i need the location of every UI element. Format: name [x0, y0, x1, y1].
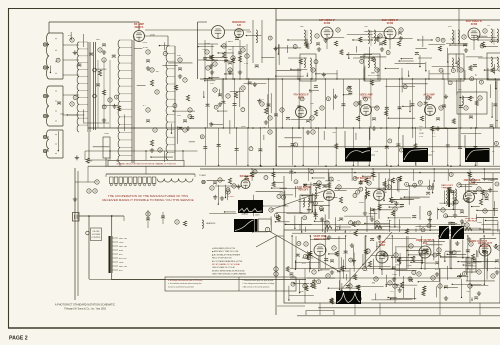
svg-text:6BQ7A: 6BQ7A — [135, 25, 144, 29]
svg-text:LINE VOLTAGE OF 117 V AC: LINE VOLTAGE OF 117 V AC — [212, 266, 236, 269]
svg-text:ON-OFF: ON-OFF — [92, 231, 100, 233]
svg-text:6J6: 6J6 — [237, 24, 242, 27]
svg-text:CHANNEL SELECTOR SWITCH SHOWN: CHANNEL SELECTOR SWITCH SHOWN IN CHANNEL… — [116, 163, 176, 166]
svg-text:HORIZ OUTPUT: HORIZ OUTPUT — [469, 240, 487, 243]
svg-text:56K: 56K — [96, 39, 100, 41]
svg-text:SET AT CHANNEL 13 / NO SIGNAL: SET AT CHANNEL 13 / NO SIGNAL — [212, 263, 240, 266]
svg-text:BLU: BLU — [119, 254, 123, 256]
svg-text:GRN: GRN — [119, 242, 124, 244]
svg-text:CONTROL: CONTROL — [465, 221, 477, 223]
svg-text:56K: 56K — [300, 291, 304, 293]
svg-text:MODELS WHEN DETAILS A PRODUCE: MODELS WHEN DETAILS A PRODUCED — [212, 269, 246, 272]
svg-text:470K: 470K — [143, 47, 149, 49]
svg-text:RECEIVER MAKES IT POSSIBLE TO: RECEIVER MAKES IT POSSIBLE TO BRING YOU … — [102, 198, 193, 202]
svg-text:47K: 47K — [68, 35, 72, 37]
svg-text:1500: 1500 — [104, 133, 110, 135]
svg-text:470K: 470K — [150, 35, 155, 37]
svg-text:120K: 120K — [450, 39, 455, 41]
svg-text:RED-YEL: RED-YEL — [119, 246, 127, 248]
svg-text:47K: 47K — [435, 269, 439, 271]
svg-text:100K: 100K — [419, 133, 424, 135]
svg-text:10K: 10K — [89, 161, 93, 163]
svg-text:RED-YEL: RED-YEL — [119, 238, 127, 240]
svg-text:PAGE 2: PAGE 2 — [9, 336, 28, 342]
svg-text:HEATERS: HEATERS — [206, 222, 216, 225]
svg-text:©Howard W. Sams & Co., Inc. Y: ©Howard W. Sams & Co., Inc. Year 1953 — [64, 308, 107, 311]
svg-text:470K: 470K — [142, 42, 147, 44]
svg-text:VOLUME: VOLUME — [92, 234, 101, 236]
svg-text:FIELD OF DEFLECTION: FIELD OF DEFLECTION — [212, 258, 232, 260]
svg-text:7.5V: 7.5V — [374, 151, 379, 153]
svg-text:47K: 47K — [361, 224, 365, 226]
svg-text:ALL VOLTAGES MEASURED w/VTVM: ALL VOLTAGES MEASURED w/VTVM — [212, 260, 243, 263]
svg-text:BRN: BRN — [119, 250, 124, 252]
svg-text:47K: 47K — [302, 263, 306, 265]
svg-text:100K: 100K — [246, 32, 251, 34]
svg-text:BLK-YEL: BLK-YEL — [119, 258, 127, 260]
svg-text:120K: 120K — [255, 214, 260, 216]
svg-text:1 MEG: 1 MEG — [488, 180, 495, 182]
svg-text:10K: 10K — [262, 127, 266, 129]
svg-text:VERT MULT: VERT MULT — [465, 218, 479, 220]
svg-text:◆ NO SIGNAL AT THE ALTERNATE: ◆ NO SIGNAL AT THE ALTERNATE — [212, 253, 241, 256]
svg-text:GRN: GRN — [119, 262, 124, 264]
svg-text:4.5MC: 4.5MC — [228, 196, 235, 198]
svg-text:6CB6: 6CB6 — [324, 22, 331, 25]
svg-text:100K: 100K — [477, 222, 483, 224]
svg-text:2.2K: 2.2K — [419, 136, 424, 138]
svg-text:TAKEOFF: TAKEOFF — [298, 189, 309, 192]
svg-text:56K: 56K — [300, 26, 304, 28]
svg-text:TO ANT: TO ANT — [199, 174, 207, 177]
svg-text:A PHOTOFACT STANDARD NOTATION: A PHOTOFACT STANDARD NOTATION SCHEMATIC — [55, 304, 115, 307]
svg-text:5600: 5600 — [359, 202, 365, 204]
svg-text:USED THAT IS MODELS 5 ARE DRAW: USED THAT IS MODELS 5 ARE DRAWING — [212, 273, 247, 276]
svg-text:22K: 22K — [210, 83, 214, 85]
svg-text:RED-YEL: RED-YEL — [119, 266, 127, 268]
svg-text:.0047: .0047 — [241, 126, 247, 128]
svg-text:6CB6: 6CB6 — [387, 22, 394, 25]
svg-text:1 MEG: 1 MEG — [226, 41, 233, 43]
svg-text:68K: 68K — [371, 73, 375, 75]
svg-text:◆ EFFICIENCY TRAP 250 L LIN: ◆ EFFICIENCY TRAP 250 L LINE — [212, 250, 239, 253]
svg-text:10K: 10K — [337, 272, 341, 274]
svg-text:★ RESONATES WITH 477K4: ★ RESONATES WITH 477K4 — [212, 247, 235, 250]
svg-text:.0047: .0047 — [279, 192, 285, 194]
svg-text:BLU: BLU — [119, 270, 123, 272]
svg-text:CONTROL: CONTROL — [91, 237, 100, 239]
svg-text:6CB6: 6CB6 — [471, 23, 478, 26]
svg-text:2.2K: 2.2K — [244, 63, 249, 65]
